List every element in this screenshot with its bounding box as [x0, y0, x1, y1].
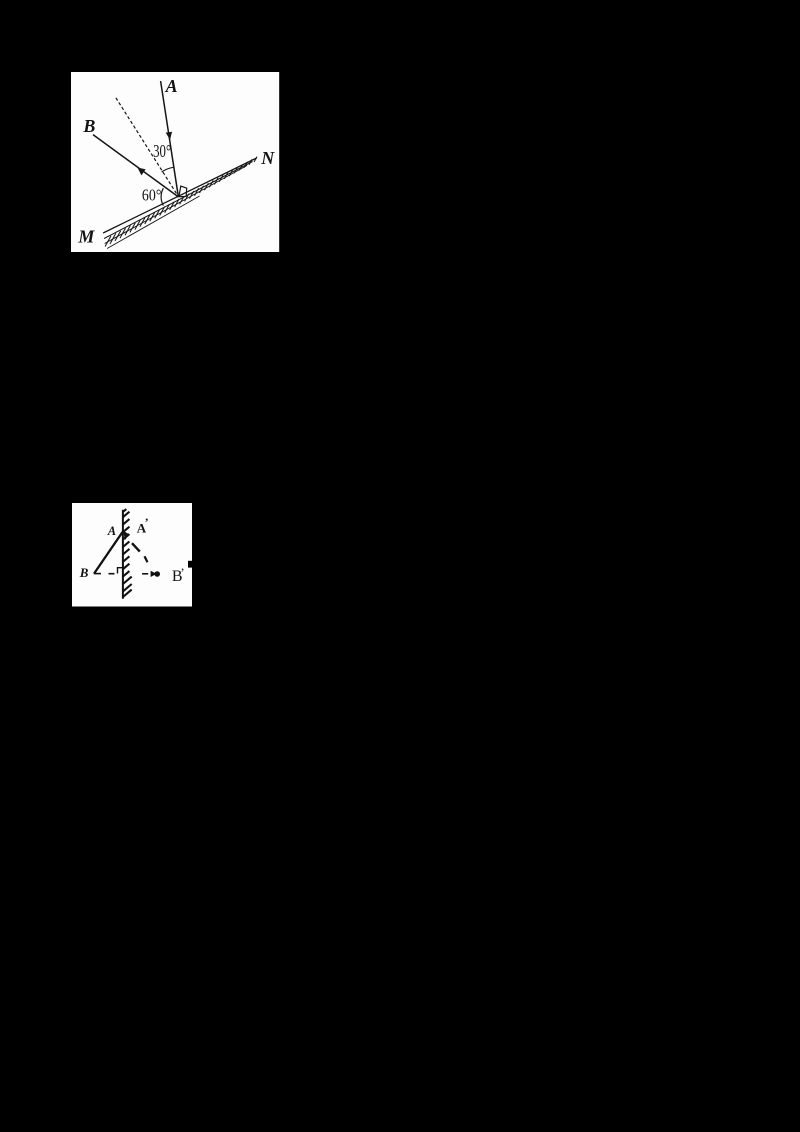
- arrowhead toward B': [150, 571, 156, 577]
- mirror surface second line: [104, 162, 252, 239]
- arrowhead at A: [123, 531, 129, 540]
- figure 1 panel: ray diagram on inclined mirror MN: [71, 72, 279, 252]
- svg-text:M: M: [78, 226, 96, 246]
- dash right of mirror: [142, 573, 148, 575]
- paper background: [72, 503, 193, 607]
- svg-text:A: A: [107, 524, 116, 538]
- mirror hatching: [123, 509, 132, 597]
- right angle mark at mirror: [117, 568, 122, 574]
- dashed construction curve dash 2: [144, 556, 147, 562]
- svg-text:’: ’: [180, 565, 184, 580]
- surface hatching: [105, 157, 257, 247]
- mirror surface MN main line: [103, 158, 256, 233]
- black square mark at panel edge: [188, 561, 193, 568]
- svg-text:30°: 30°: [153, 141, 171, 161]
- dash of B image line: [108, 573, 114, 575]
- mirror surface third line: [105, 165, 247, 243]
- 60 degree arc: [161, 188, 163, 205]
- ray B: [93, 135, 178, 197]
- mirror vertical line: [122, 510, 124, 599]
- svg-text:60°: 60°: [142, 185, 161, 204]
- dashed construction curve dash 1: [132, 543, 140, 551]
- image point B' dot: [154, 571, 160, 577]
- ray A (incident ray): [161, 81, 179, 197]
- arrowhead on ray B: [138, 168, 146, 176]
- svg-text:B: B: [83, 116, 96, 136]
- dash at B foot: [93, 573, 100, 575]
- 30 degree arc: [162, 167, 174, 172]
- svg-text:’: ’: [144, 515, 148, 529]
- figure 2 panel: plane mirror with image construction: [72, 503, 193, 607]
- paper background: [71, 72, 279, 252]
- object line B to A: [94, 532, 122, 574]
- svg-text:A: A: [165, 76, 178, 96]
- svg-text:B: B: [78, 565, 88, 580]
- mirror surface fourth line: [107, 196, 199, 248]
- arrowhead on ray A: [166, 132, 172, 140]
- right angle square at incidence point: [179, 186, 187, 197]
- svg-text:N: N: [261, 148, 276, 168]
- dashed normal line: [116, 98, 178, 196]
